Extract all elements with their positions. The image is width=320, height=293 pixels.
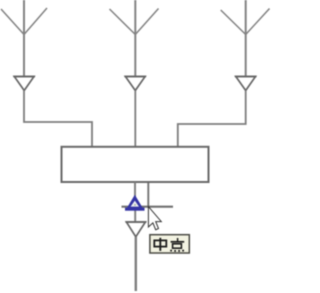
antenna ANT2 — [110, 0, 159, 77]
antenna ANT1 — [1, 0, 47, 77]
wire combiner output upper segment — [134, 182, 136, 197]
wire output to bottom — [135, 237, 137, 291]
amplifier A1 — [13, 77, 35, 91]
amplifier A3 — [235, 77, 257, 91]
mouse cursor — [148, 207, 161, 230]
wire between connector halves — [134, 209, 136, 222]
combiner U1 — [62, 147, 209, 182]
antenna ANT3 — [221, 0, 270, 77]
amplifier A2 — [124, 77, 146, 91]
crosshair horizontal line — [122, 206, 174, 208]
wire A2 to combiner — [134, 91, 136, 148]
wire ghost segment (crosshair vertical) — [147, 183, 149, 208]
wire A1 to combiner — [24, 91, 92, 148]
glyph 点 — [170, 238, 184, 252]
wire A3 to combiner — [178, 91, 246, 148]
connection point marker (selected, blue) "midpoint" — [125, 195, 145, 211]
connector lower half (triangle down) — [125, 222, 146, 237]
glyph 中 — [154, 238, 166, 251]
tooltip "中点" — [150, 235, 189, 253]
